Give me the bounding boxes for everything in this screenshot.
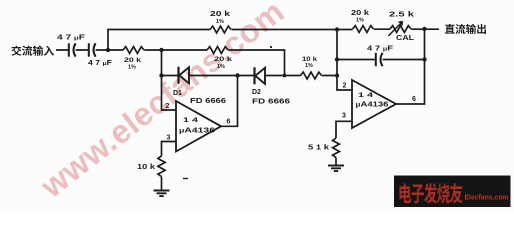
wire: U2 inverting vertical from rail [337, 30, 352, 91]
svg-text:μA4136: μA4136 [356, 102, 389, 109]
svg-text:1%: 1% [128, 65, 136, 71]
label AC input [11, 45, 21, 55]
svg-text:4 7 μF: 4 7 μF [367, 46, 394, 53]
op-amp U1 uA4136 [176, 101, 221, 152]
resistor 20k 1% top rail [210, 26, 231, 33]
wire: U2 pin3 to 5.1k to ground [336, 121, 352, 165]
node: D1 anode line junction [159, 73, 163, 77]
node: input junction [106, 48, 110, 52]
svg-text:CAL: CAL [396, 35, 415, 42]
svg-text:20 k: 20 k [210, 11, 230, 18]
svg-text:4 7 μF: 4 7 μF [88, 60, 113, 67]
svg-text:D1: D1 [173, 90, 182, 97]
wire: diode line y=75.5 [162, 75, 338, 77]
node: output top rail [422, 27, 426, 31]
svg-text:1 4: 1 4 [183, 117, 198, 124]
ground under 5.1k [328, 166, 344, 172]
svg-text:3: 3 [167, 135, 171, 142]
wire: U2 output to right vertical up to rail [396, 29, 425, 104]
svg-text:1%: 1% [305, 63, 313, 69]
diode D1 FD6666 [177, 67, 179, 84]
potentiometer 2.5k CAL [390, 26, 411, 33]
resistor 10k 1% [301, 72, 322, 79]
ground under 10k [154, 191, 170, 197]
svg-text:20 k: 20 k [124, 57, 142, 64]
op-amp U2 uA4136 [352, 80, 396, 128]
svg-text:FD 6666: FD 6666 [252, 99, 290, 106]
node: U1 output / diode line [235, 73, 239, 77]
stray dot artifact [270, 46, 272, 48]
svg-text:D2: D2 [252, 89, 261, 96]
diode D2 FD6666 [253, 67, 255, 84]
svg-text:4 7 μF: 4 7 μF [57, 35, 86, 42]
resistor 20k 1% line2 second [207, 47, 228, 54]
svg-text:1 4: 1 4 [358, 92, 373, 99]
resistor 10k (U1 pin3) [158, 156, 165, 177]
capacitor C2 4.7uF [88, 43, 90, 56]
label DC output [445, 24, 455, 34]
node: 10k line right [335, 73, 339, 77]
stray mark artifact [183, 178, 188, 180]
svg-text:6: 6 [227, 119, 231, 126]
svg-text:FD 6666: FD 6666 [190, 98, 226, 105]
node: cap line left [335, 57, 339, 61]
node: cap line right [422, 57, 426, 61]
node: U2 inv on top rail [335, 27, 339, 31]
node: 20k drop junction [283, 74, 287, 78]
watermark www.elecfans.com [33, 0, 290, 205]
wire: input line to caps and 20k [56, 49, 123, 51]
svg-text:5 1 k: 5 1 k [308, 145, 329, 152]
capacitor C3 4.7uF feedback [375, 53, 377, 66]
resistor 5.1k [333, 138, 340, 158]
svg-text:10 k: 10 k [302, 56, 317, 63]
logo bar elecfans [394, 176, 511, 208]
wire: input node up to top rail and rail to right [108, 29, 439, 50]
svg-text:1%: 1% [217, 64, 225, 70]
wire: feedback cap line [337, 59, 425, 61]
svg-text:2.5 k: 2.5 k [389, 12, 414, 19]
svg-text:10 k: 10 k [137, 164, 155, 171]
svg-text:Elecfans.com: Elecfans.com [465, 195, 509, 202]
wire: U1 inverting input vertical [162, 50, 177, 110]
svg-text:1%: 1% [356, 18, 364, 24]
svg-text:μA4136: μA4136 [179, 128, 215, 135]
svg-text:6: 6 [412, 96, 416, 103]
wire: U1 output up to diode line [221, 76, 238, 127]
wire: U1 pin3 to 10k to ground [162, 142, 177, 191]
svg-text:2: 2 [343, 83, 347, 90]
svg-text:3: 3 [342, 113, 346, 120]
capacitor C1 4.7uF [68, 43, 70, 56]
svg-text:2: 2 [166, 103, 170, 110]
node: 20k/20k junction [159, 48, 163, 52]
svg-text:20 k: 20 k [351, 10, 369, 17]
resistor 20k 1% right [353, 26, 374, 33]
resistor 20k 1% input (line2) [123, 47, 144, 54]
svg-text:20 k: 20 k [214, 56, 233, 63]
svg-text:1%: 1% [216, 19, 224, 25]
wire: second line 20k to 20k to corner down [144, 50, 284, 76]
